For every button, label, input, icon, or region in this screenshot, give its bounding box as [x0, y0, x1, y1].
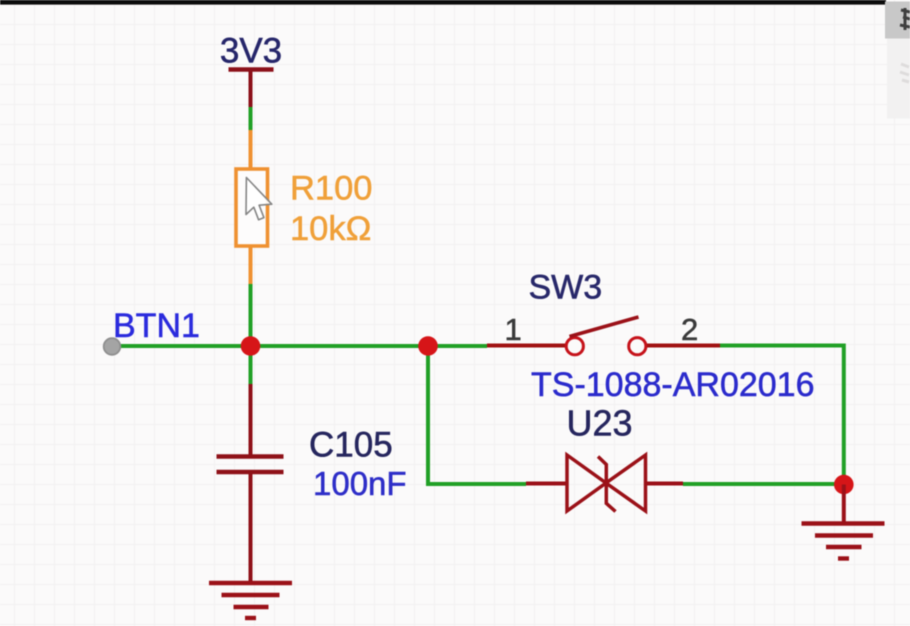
ground symbol (right) [802, 524, 885, 559]
resistor R100 body [236, 169, 268, 246]
pin 2 of R100 (orange stub) [249, 246, 253, 284]
svg-text:3V3: 3V3 [220, 32, 282, 71]
svg-text:TS-1088-AR02016: TS-1088-AR02016 [531, 366, 815, 404]
junction node A (R100/C105/BTN1) [241, 336, 261, 356]
pin stub from 3V3 symbol [249, 70, 253, 108]
top black bar [0, 0, 886, 5]
pin stub left of U23 [526, 482, 567, 486]
pin 1 wire of SW3 [487, 344, 565, 348]
switch contact circle right [629, 338, 646, 355]
svg-text:U23: U23 [567, 403, 633, 444]
switch SW3 [487, 312, 722, 355]
left triangle [567, 455, 606, 511]
wire BTN1 horizontal net [112, 344, 487, 348]
svg-text:R100: R100 [290, 170, 372, 208]
wire (U23 to node C) [683, 482, 844, 486]
pin 1 of C105 (dark red stub) [249, 384, 253, 455]
pin stub to right ground [842, 485, 846, 524]
svg-text:C105: C105 [309, 426, 393, 465]
wire (R100 to node BTN1) [249, 284, 253, 347]
svg-text:100nF: 100nF [313, 465, 407, 502]
switch lever [570, 317, 639, 337]
svg-text:2: 2 [681, 312, 698, 347]
capacitor C105 top plate [217, 454, 284, 459]
junction node B (BTN1/switch/diode) [418, 336, 438, 356]
wire (SW3 pin2 to node C, with corner) [720, 346, 844, 485]
wire (3V3 to R100, green segment) [249, 107, 253, 130]
wire (to diode left) [426, 482, 526, 486]
svg-text:1: 1 [505, 312, 522, 347]
TVS diode U23 [526, 455, 683, 512]
pin 2 wire of SW3 [647, 344, 722, 348]
capacitor C105 bottom plate [217, 470, 284, 475]
wire (node B down) [426, 346, 430, 484]
ground symbol (left, below C105) [209, 583, 292, 618]
svg-text:SW3: SW3 [529, 269, 603, 307]
switch contact circle left [566, 338, 583, 355]
pin 1 of R100 (orange stub) [249, 130, 253, 169]
top-right overlay panel [885, 2, 910, 119]
svg-text:10kΩ: 10kΩ [290, 210, 371, 248]
zener bar with hooks [598, 457, 616, 512]
wire (node A down to C105) [249, 346, 253, 384]
mouse cursor [246, 178, 272, 220]
pin 2 of C105 (dark red stub to ground) [249, 472, 253, 582]
junction node C (SW3/U23/GND) [834, 475, 854, 495]
pin stub right of U23 [646, 482, 684, 486]
svg-text:BTN1: BTN1 [113, 307, 200, 345]
right triangle [606, 455, 646, 511]
power symbol 3V3 bar [229, 67, 274, 72]
pin connection circle BTN1 [104, 338, 121, 355]
